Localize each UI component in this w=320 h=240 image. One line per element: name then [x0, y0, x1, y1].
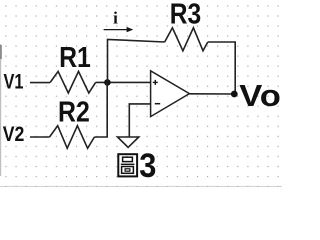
caption figure glyph (Chinese character tu / figure) [118, 154, 137, 176]
op-amp U1 [151, 71, 190, 117]
svg-text:R1: R1 [59, 42, 91, 74]
wire junction up to R3 [108, 39, 165, 82]
wire V1 to R1 [30, 82, 50, 84]
wire R3 to output node [208, 42, 235, 94]
current arrow i [104, 27, 134, 32]
wire R2 up to junction [94, 82, 107, 137]
ground [118, 137, 139, 147]
wire V2 to R2 [30, 136, 50, 138]
resistor R3 [165, 28, 208, 51]
left-edge scan artifact [0, 44, 1, 176]
resistor R2 [50, 126, 95, 149]
node Vo [231, 91, 238, 98]
svg-text:i: i [113, 9, 118, 28]
svg-text:V1: V1 [4, 71, 24, 94]
wire R1 to op-amp + input [96, 81, 151, 83]
svg-text:R3: R3 [170, 0, 201, 30]
svg-text:R2: R2 [58, 96, 90, 128]
resistor R1 [50, 71, 95, 93]
svg-text:3: 3 [139, 147, 156, 185]
svg-text:V2: V2 [3, 123, 25, 146]
node A (junction of R1, R2, R3) [104, 79, 111, 86]
bottom-edge scan artifact [0, 186, 282, 187]
wire op-amp output to node Vo [189, 93, 234, 95]
svg-text:Vo: Vo [239, 78, 281, 113]
wire op-amp - input to ground [129, 104, 150, 137]
